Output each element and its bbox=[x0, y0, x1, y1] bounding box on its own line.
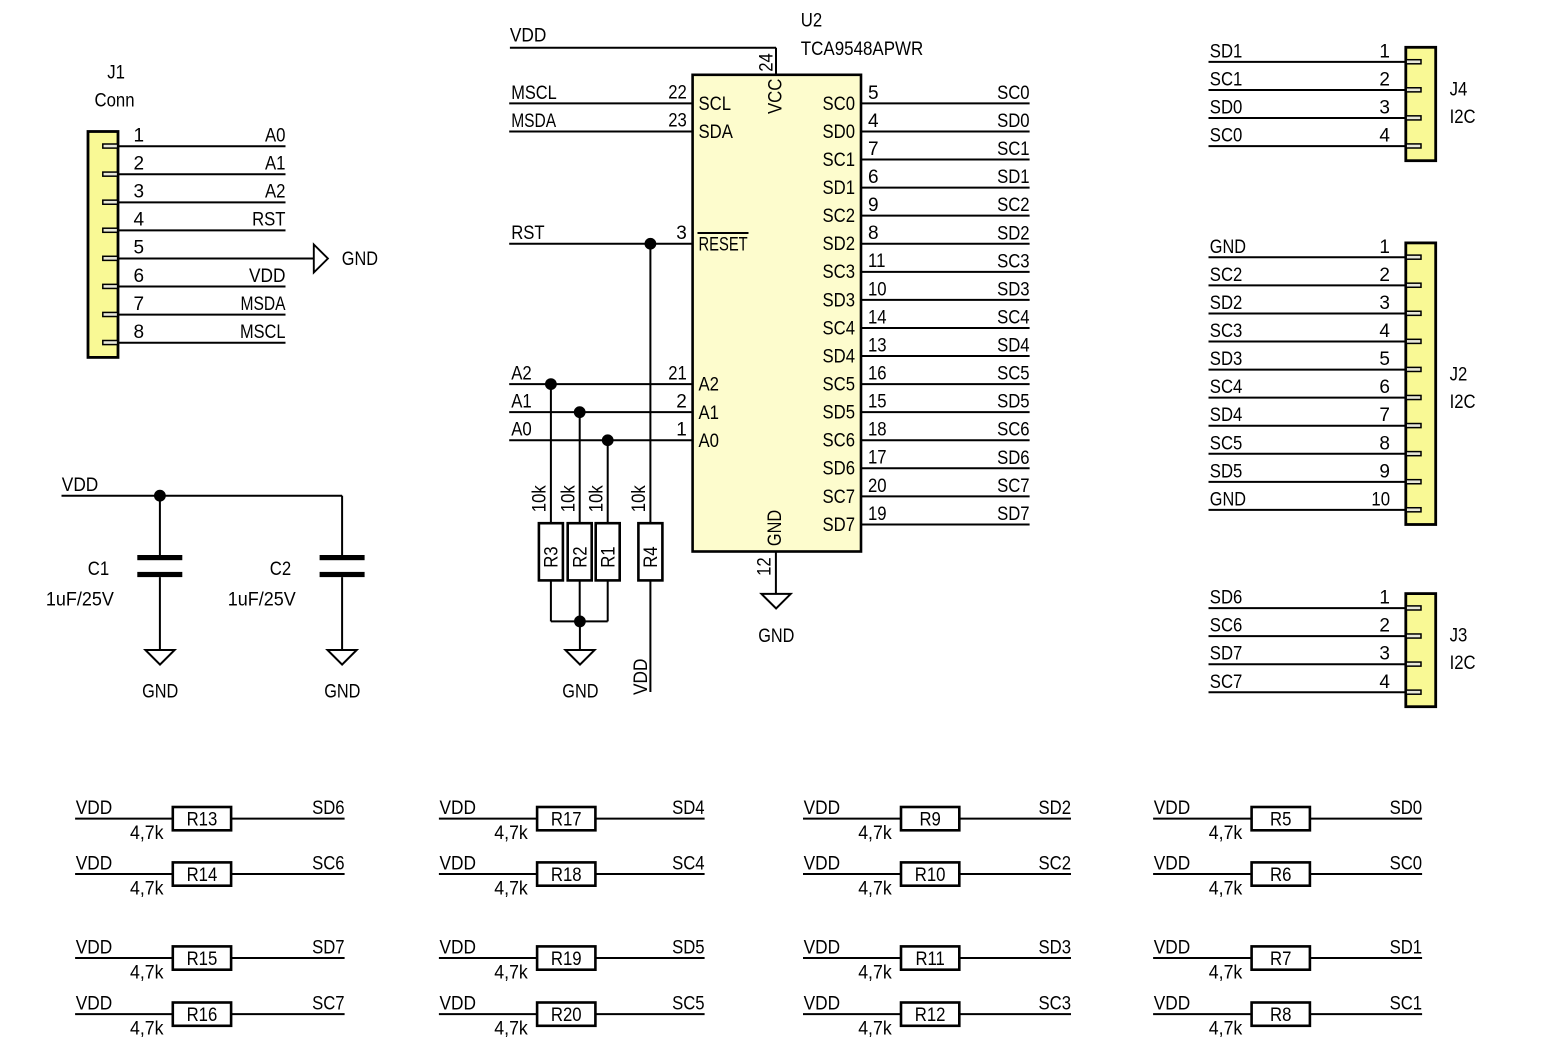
junction node A at x=550.9 bbox=[545, 378, 557, 390]
resistor R6 bbox=[1252, 862, 1310, 885]
svg-text:SC7: SC7 bbox=[997, 476, 1030, 497]
svg-text:R18: R18 bbox=[551, 865, 582, 886]
svg-text:VDD: VDD bbox=[804, 994, 841, 1015]
svg-text:R5: R5 bbox=[1270, 809, 1291, 830]
svg-text:VDD: VDD bbox=[510, 26, 547, 47]
resistor R14 bbox=[173, 862, 231, 885]
wire J1 pin 3 bbox=[118, 201, 286, 203]
svg-text:4: 4 bbox=[1379, 126, 1390, 147]
svg-text:1: 1 bbox=[134, 125, 145, 146]
svg-text:1uF/25V: 1uF/25V bbox=[46, 590, 114, 611]
svg-text:SC3: SC3 bbox=[997, 251, 1030, 272]
svg-text:VDD: VDD bbox=[440, 798, 477, 819]
svg-text:1: 1 bbox=[1379, 588, 1390, 609]
wire R11 to SD3 bbox=[959, 957, 1071, 959]
wire VDD to R16 bbox=[75, 1013, 173, 1015]
svg-text:R16: R16 bbox=[187, 1005, 218, 1026]
svg-text:TCA9548APWR: TCA9548APWR bbox=[801, 39, 924, 60]
svg-text:SC1: SC1 bbox=[997, 139, 1030, 160]
svg-text:SD4: SD4 bbox=[823, 346, 856, 367]
resistor R15 bbox=[173, 946, 231, 969]
wire U2 SC3 bbox=[861, 271, 1030, 273]
svg-text:VDD: VDD bbox=[1154, 938, 1191, 959]
svg-text:2: 2 bbox=[1379, 265, 1390, 286]
svg-text:SD3: SD3 bbox=[823, 290, 856, 311]
wire C2 branch bbox=[341, 496, 343, 555]
wire R20 to SC5 bbox=[595, 1013, 704, 1015]
capacitor C1 bbox=[137, 555, 182, 577]
svg-text:21: 21 bbox=[668, 363, 687, 384]
svg-text:SCL: SCL bbox=[699, 94, 732, 115]
svg-text:RST: RST bbox=[252, 210, 286, 231]
svg-text:4,7k: 4,7k bbox=[494, 823, 528, 844]
wire J4 pin 1 (SD1) bbox=[1209, 61, 1406, 63]
wire J3 pin 1 (SD6) bbox=[1209, 607, 1406, 609]
svg-text:4,7k: 4,7k bbox=[130, 878, 164, 899]
resistor R1 bbox=[596, 523, 620, 580]
wire J2 pin 5 (SD3) bbox=[1209, 369, 1406, 371]
wire R19 to SD5 bbox=[595, 957, 704, 959]
connector J3 bbox=[1406, 594, 1436, 707]
svg-text:MSCL: MSCL bbox=[240, 322, 286, 343]
svg-text:SC0: SC0 bbox=[1390, 854, 1423, 875]
svg-text:11: 11 bbox=[868, 251, 885, 272]
svg-text:RST: RST bbox=[511, 223, 545, 244]
svg-text:VDD: VDD bbox=[631, 659, 652, 696]
svg-text:R19: R19 bbox=[551, 949, 582, 970]
wire U2 pin 12 to ground bbox=[775, 552, 777, 594]
svg-text:GND: GND bbox=[1210, 489, 1246, 510]
svg-text:SC1: SC1 bbox=[823, 150, 856, 171]
svg-text:GND: GND bbox=[758, 626, 794, 647]
svg-text:7: 7 bbox=[134, 294, 145, 315]
wire VDD to R20 bbox=[439, 1013, 537, 1015]
port arrow GND (J1 pin 5) bbox=[314, 245, 328, 273]
pin name RESET bbox=[698, 233, 749, 255]
svg-text:A2: A2 bbox=[699, 375, 720, 396]
wire VDD to R5 bbox=[1153, 818, 1252, 820]
svg-text:A1: A1 bbox=[699, 403, 720, 424]
svg-text:2: 2 bbox=[1379, 69, 1390, 90]
svg-text:MSCL: MSCL bbox=[511, 83, 557, 104]
wire VDD to R11 bbox=[803, 957, 901, 959]
resistor R18 bbox=[537, 862, 595, 885]
svg-text:23: 23 bbox=[668, 111, 687, 132]
svg-text:C1: C1 bbox=[88, 559, 109, 580]
svg-text:4: 4 bbox=[134, 210, 145, 231]
svg-text:SD5: SD5 bbox=[1210, 461, 1243, 482]
wire J2 pin 1 (GND) bbox=[1209, 256, 1406, 258]
svg-text:R13: R13 bbox=[187, 809, 218, 830]
svg-text:SD0: SD0 bbox=[1390, 798, 1423, 819]
svg-text:16: 16 bbox=[868, 364, 887, 385]
wire J4 pin 4 (SC0) bbox=[1209, 145, 1406, 147]
svg-text:5: 5 bbox=[134, 238, 145, 259]
svg-text:VDD: VDD bbox=[249, 266, 286, 287]
svg-text:3: 3 bbox=[1379, 644, 1390, 665]
wire pin 24 vertical bbox=[775, 48, 777, 75]
svg-text:GND: GND bbox=[1210, 237, 1246, 258]
svg-text:4,7k: 4,7k bbox=[494, 962, 528, 983]
svg-text:Conn: Conn bbox=[95, 91, 135, 112]
wire U2 SC7 bbox=[861, 495, 1030, 497]
svg-text:U2: U2 bbox=[801, 11, 822, 32]
svg-text:SD3: SD3 bbox=[1210, 349, 1243, 370]
svg-text:4,7k: 4,7k bbox=[858, 962, 892, 983]
wire J2 pin 8 (SC5) bbox=[1209, 453, 1406, 455]
svg-text:SD7: SD7 bbox=[997, 504, 1030, 525]
wire VDD to R7 bbox=[1153, 957, 1252, 959]
wire U2 SD6 bbox=[861, 467, 1030, 469]
svg-text:GND: GND bbox=[324, 681, 360, 702]
wire U2 SD1 bbox=[861, 187, 1030, 189]
wire R3 bottom bbox=[550, 580, 552, 621]
svg-text:2: 2 bbox=[676, 391, 687, 412]
ground R1 R2 R3 bbox=[565, 650, 594, 665]
svg-text:SC7: SC7 bbox=[823, 487, 856, 508]
svg-text:SD2: SD2 bbox=[997, 223, 1030, 244]
wire R17 to SD4 bbox=[595, 818, 704, 820]
svg-text:VDD: VDD bbox=[1154, 994, 1191, 1015]
svg-text:20: 20 bbox=[868, 476, 887, 497]
wire J1 pin 8 bbox=[118, 342, 286, 344]
svg-text:SD2: SD2 bbox=[1039, 798, 1072, 819]
svg-text:R4: R4 bbox=[641, 546, 662, 568]
svg-text:9: 9 bbox=[868, 195, 879, 216]
svg-text:R9: R9 bbox=[919, 809, 940, 830]
svg-text:SC1: SC1 bbox=[1210, 69, 1243, 90]
svg-text:1: 1 bbox=[1379, 237, 1390, 258]
wire U2 SD2 bbox=[861, 243, 1030, 245]
svg-text:14: 14 bbox=[868, 307, 887, 328]
svg-text:10: 10 bbox=[1371, 489, 1390, 510]
svg-text:SD7: SD7 bbox=[1210, 644, 1243, 665]
wire VDD to R17 bbox=[439, 818, 537, 820]
wire C2 bottom bbox=[341, 577, 343, 650]
wire J4 pin 3 (SD0) bbox=[1209, 117, 1406, 119]
svg-text:SC7: SC7 bbox=[312, 994, 345, 1015]
wire J2 pin 3 (SD2) bbox=[1209, 312, 1406, 314]
svg-text:SC6: SC6 bbox=[1210, 616, 1243, 637]
svg-text:SD5: SD5 bbox=[823, 403, 856, 424]
svg-text:8: 8 bbox=[868, 223, 879, 244]
svg-text:J3: J3 bbox=[1450, 626, 1468, 647]
wire U2 SD3 bbox=[861, 299, 1030, 301]
svg-text:4,7k: 4,7k bbox=[858, 1018, 892, 1039]
wire VDD rail bbox=[62, 495, 343, 497]
svg-text:3: 3 bbox=[1379, 293, 1390, 314]
resistor R7 bbox=[1252, 946, 1310, 969]
svg-text:VDD: VDD bbox=[440, 854, 477, 875]
svg-text:A1: A1 bbox=[511, 392, 532, 413]
svg-text:SC5: SC5 bbox=[823, 375, 856, 396]
svg-text:SD3: SD3 bbox=[997, 279, 1030, 300]
connector J4 bbox=[1406, 47, 1436, 160]
svg-text:17: 17 bbox=[868, 448, 887, 469]
svg-text:10: 10 bbox=[868, 279, 887, 300]
svg-text:A1: A1 bbox=[265, 153, 286, 174]
svg-text:I2C: I2C bbox=[1450, 107, 1476, 128]
svg-text:SC3: SC3 bbox=[1039, 994, 1072, 1015]
wire VDD to R9 bbox=[803, 818, 901, 820]
svg-text:4,7k: 4,7k bbox=[130, 962, 164, 983]
resistor R11 bbox=[901, 946, 959, 969]
junction RST/R4 bbox=[645, 238, 657, 250]
svg-text:SD6: SD6 bbox=[997, 448, 1030, 469]
svg-text:SD7: SD7 bbox=[823, 515, 856, 536]
svg-text:A2: A2 bbox=[511, 364, 532, 385]
svg-text:SC1: SC1 bbox=[1390, 994, 1423, 1015]
wire VDD to R19 bbox=[439, 957, 537, 959]
svg-text:3: 3 bbox=[676, 223, 687, 244]
resistor R19 bbox=[537, 946, 595, 969]
resistor R2 bbox=[568, 523, 592, 580]
wire R5 to SD0 bbox=[1310, 818, 1422, 820]
svg-text:MSDA: MSDA bbox=[511, 111, 556, 132]
svg-text:R17: R17 bbox=[551, 809, 582, 830]
wire U2 SD0 bbox=[861, 130, 1030, 132]
resistor R16 bbox=[173, 1003, 231, 1026]
svg-text:SC2: SC2 bbox=[823, 206, 856, 227]
wire R18 to SC4 bbox=[595, 873, 704, 875]
svg-text:RESET: RESET bbox=[699, 234, 748, 255]
svg-text:4,7k: 4,7k bbox=[1209, 962, 1243, 983]
wire R4 to VDD bbox=[649, 580, 651, 692]
wire J2 pin 2 (SC2) bbox=[1209, 284, 1406, 286]
junction node A at x=607.7 bbox=[602, 434, 614, 446]
wire R9 to SD2 bbox=[959, 818, 1071, 820]
svg-text:SC6: SC6 bbox=[823, 431, 856, 452]
svg-text:SC0: SC0 bbox=[823, 94, 856, 115]
svg-text:SD6: SD6 bbox=[823, 459, 856, 480]
wire J1 pin 4 bbox=[118, 229, 286, 231]
svg-text:SD0: SD0 bbox=[997, 111, 1030, 132]
svg-text:SC7: SC7 bbox=[1210, 672, 1243, 693]
resistor R10 bbox=[901, 862, 959, 885]
svg-text:SD2: SD2 bbox=[823, 234, 856, 255]
svg-text:SD5: SD5 bbox=[997, 392, 1030, 413]
resistor R3 bbox=[539, 523, 563, 580]
svg-text:SC4: SC4 bbox=[997, 307, 1030, 328]
wire R15 to SD7 bbox=[231, 957, 345, 959]
svg-text:SC2: SC2 bbox=[1039, 854, 1072, 875]
wire J3 pin 4 (SC7) bbox=[1209, 691, 1406, 693]
wire RST to U2 bbox=[509, 243, 692, 245]
svg-text:3: 3 bbox=[1379, 98, 1390, 119]
svg-text:R7: R7 bbox=[1270, 949, 1291, 970]
svg-text:1uF/25V: 1uF/25V bbox=[228, 590, 296, 611]
svg-text:SC4: SC4 bbox=[823, 318, 856, 339]
svg-text:SD4: SD4 bbox=[997, 336, 1030, 357]
resistor R5 bbox=[1252, 807, 1310, 830]
wire VDD to R15 bbox=[75, 957, 173, 959]
svg-text:5: 5 bbox=[1379, 349, 1390, 370]
wire A2 to U2 bbox=[509, 383, 692, 385]
svg-text:R8: R8 bbox=[1270, 1005, 1291, 1026]
wire VDD to R14 bbox=[75, 873, 173, 875]
svg-text:7: 7 bbox=[1379, 405, 1390, 426]
svg-text:J1: J1 bbox=[107, 63, 125, 84]
svg-text:SC0: SC0 bbox=[1210, 126, 1243, 147]
svg-text:SD0: SD0 bbox=[1210, 98, 1243, 119]
resistor R12 bbox=[901, 1003, 959, 1026]
wire gnd bus bbox=[551, 620, 608, 622]
wire VDD to R10 bbox=[803, 873, 901, 875]
wire R14 to SC6 bbox=[231, 873, 345, 875]
svg-text:A0: A0 bbox=[699, 431, 720, 452]
wire U2 SC4 bbox=[861, 327, 1030, 329]
svg-text:SD2: SD2 bbox=[1210, 293, 1243, 314]
wire bus to ground bbox=[579, 621, 581, 650]
resistor R9 bbox=[901, 807, 959, 830]
wire R13 to SD6 bbox=[231, 818, 345, 820]
resistor R8 bbox=[1252, 1003, 1310, 1026]
svg-text:4: 4 bbox=[1379, 321, 1390, 342]
svg-text:24: 24 bbox=[756, 53, 777, 72]
wire C1 top bbox=[159, 496, 161, 555]
svg-text:SD0: SD0 bbox=[823, 122, 856, 143]
svg-text:SDA: SDA bbox=[699, 122, 734, 143]
svg-text:9: 9 bbox=[1379, 461, 1390, 482]
wire J3 pin 3 (SD7) bbox=[1209, 663, 1406, 665]
svg-text:SD6: SD6 bbox=[1210, 588, 1243, 609]
svg-text:10k: 10k bbox=[587, 485, 608, 512]
svg-text:VDD: VDD bbox=[804, 854, 841, 875]
svg-text:VDD: VDD bbox=[440, 994, 477, 1015]
svg-text:22: 22 bbox=[668, 83, 687, 104]
svg-text:2: 2 bbox=[1379, 616, 1390, 637]
wire J2 pin 7 (SD4) bbox=[1209, 425, 1406, 427]
svg-text:4: 4 bbox=[868, 111, 879, 132]
wire R7 to SD1 bbox=[1310, 957, 1422, 959]
wire VDD to R18 bbox=[439, 873, 537, 875]
svg-text:8: 8 bbox=[134, 322, 145, 343]
wire J3 pin 2 (SC6) bbox=[1209, 635, 1406, 637]
svg-text:GND: GND bbox=[342, 249, 378, 270]
svg-text:SD3: SD3 bbox=[1039, 938, 1072, 959]
svg-text:GND: GND bbox=[765, 510, 786, 546]
wire U2 SC5 bbox=[861, 383, 1030, 385]
svg-text:VDD: VDD bbox=[62, 475, 99, 496]
wire J2 pin 6 (SC4) bbox=[1209, 397, 1406, 399]
svg-text:3: 3 bbox=[134, 182, 145, 203]
wire R10 to SC2 bbox=[959, 873, 1071, 875]
svg-text:VCC: VCC bbox=[766, 79, 787, 114]
svg-text:6: 6 bbox=[134, 266, 145, 287]
svg-text:4,7k: 4,7k bbox=[494, 1018, 528, 1039]
svg-text:VDD: VDD bbox=[1154, 854, 1191, 875]
svg-text:MSDA: MSDA bbox=[241, 294, 286, 315]
wire R12 to SC3 bbox=[959, 1013, 1071, 1015]
wire U2 SC0 bbox=[861, 102, 1030, 104]
wire J1 pin 5 bbox=[118, 257, 314, 259]
svg-text:4,7k: 4,7k bbox=[1209, 823, 1243, 844]
svg-text:SC2: SC2 bbox=[997, 195, 1030, 216]
svg-text:R12: R12 bbox=[915, 1005, 946, 1026]
wire R2 bottom bbox=[579, 580, 581, 621]
svg-text:A0: A0 bbox=[265, 125, 286, 146]
wire A1 to U2 bbox=[509, 411, 692, 413]
capacitor C2 bbox=[320, 555, 365, 577]
wire U2 SC6 bbox=[861, 439, 1030, 441]
resistor R13 bbox=[173, 807, 231, 830]
svg-text:10k: 10k bbox=[629, 485, 650, 512]
svg-text:SD1: SD1 bbox=[823, 178, 856, 199]
svg-text:1: 1 bbox=[1379, 41, 1390, 62]
svg-text:A0: A0 bbox=[511, 420, 532, 441]
svg-text:VDD: VDD bbox=[76, 938, 113, 959]
svg-text:SC3: SC3 bbox=[1210, 321, 1243, 342]
wire C1 bottom bbox=[159, 577, 161, 650]
wire VDD to R6 bbox=[1153, 873, 1252, 875]
svg-text:J4: J4 bbox=[1450, 80, 1468, 101]
svg-text:R3: R3 bbox=[542, 546, 563, 567]
svg-text:VDD: VDD bbox=[804, 938, 841, 959]
svg-text:VDD: VDD bbox=[76, 854, 113, 875]
wire J1 pin 2 bbox=[118, 173, 286, 175]
connector J1 bbox=[88, 132, 118, 358]
ground U2 bbox=[762, 594, 791, 609]
svg-text:2: 2 bbox=[134, 153, 145, 174]
svg-text:19: 19 bbox=[868, 504, 887, 525]
svg-text:R10: R10 bbox=[915, 865, 946, 886]
svg-text:R20: R20 bbox=[551, 1005, 582, 1026]
svg-text:R6: R6 bbox=[1270, 865, 1291, 886]
junction gnd bus bbox=[574, 616, 586, 628]
ground C2 bbox=[328, 650, 357, 665]
svg-text:4,7k: 4,7k bbox=[858, 878, 892, 899]
wire down to resistor bbox=[579, 412, 581, 523]
svg-text:SC4: SC4 bbox=[1210, 377, 1243, 398]
svg-text:VDD: VDD bbox=[1154, 798, 1191, 819]
resistor R17 bbox=[537, 807, 595, 830]
svg-text:SD1: SD1 bbox=[997, 167, 1030, 188]
svg-text:SD6: SD6 bbox=[312, 798, 345, 819]
svg-text:A2: A2 bbox=[265, 182, 286, 203]
svg-text:R14: R14 bbox=[187, 865, 218, 886]
svg-text:SD5: SD5 bbox=[672, 938, 705, 959]
wire VDD to pin 24 bbox=[510, 47, 776, 49]
wire J2 pin 9 (SD5) bbox=[1209, 481, 1406, 483]
wire R8 to SC1 bbox=[1310, 1013, 1422, 1015]
svg-text:SC6: SC6 bbox=[312, 854, 345, 875]
svg-text:R1: R1 bbox=[598, 546, 619, 567]
svg-text:4,7k: 4,7k bbox=[1209, 878, 1243, 899]
wire J2 pin 10 (GND) bbox=[1209, 509, 1406, 511]
svg-text:GND: GND bbox=[562, 681, 598, 702]
svg-text:VDD: VDD bbox=[440, 938, 477, 959]
svg-text:13: 13 bbox=[868, 335, 887, 356]
svg-text:SD7: SD7 bbox=[312, 938, 345, 959]
svg-text:SC0: SC0 bbox=[997, 83, 1030, 104]
wire A0 to U2 bbox=[509, 439, 692, 441]
wire down to resistor bbox=[607, 440, 609, 523]
svg-text:10k: 10k bbox=[559, 485, 580, 512]
svg-text:7: 7 bbox=[868, 139, 879, 160]
svg-text:18: 18 bbox=[868, 420, 887, 441]
wire R16 to SC7 bbox=[231, 1013, 345, 1015]
svg-text:5: 5 bbox=[868, 83, 879, 104]
resistor R20 bbox=[537, 1003, 595, 1026]
wire J1 pin 1 bbox=[118, 145, 286, 147]
svg-text:SC3: SC3 bbox=[823, 262, 856, 283]
svg-text:4: 4 bbox=[1379, 672, 1390, 693]
svg-text:SC4: SC4 bbox=[672, 854, 705, 875]
svg-text:J2: J2 bbox=[1450, 365, 1468, 386]
wire MSCL to U2 bbox=[509, 102, 692, 104]
connector J2 bbox=[1406, 243, 1436, 525]
svg-text:10k: 10k bbox=[530, 485, 551, 512]
